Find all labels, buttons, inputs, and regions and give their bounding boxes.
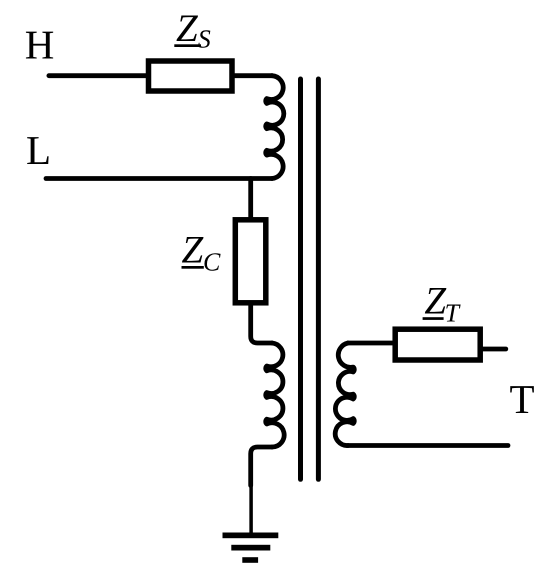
svg-text:S: S [198,25,211,54]
svg-text:H: H [25,22,55,68]
resistor ZC box [235,220,265,303]
underline of ZT label [423,317,444,320]
wire W3 top to ZT [348,341,396,346]
svg-text:Z: Z [182,229,205,272]
underline of ZS label [174,44,201,47]
underline of ZC label [182,266,204,269]
ground bar 1 [223,533,279,539]
svg-text:C: C [203,247,221,276]
winding W2 (common branch, lower left) [266,343,284,447]
wire W3 bottom to T terminal [348,443,508,448]
svg-text:T: T [510,376,535,422]
svg-text:T: T [445,299,461,328]
ground bar 3 [242,557,258,563]
core line left [298,79,303,479]
winding W3 (tertiary, right) [335,343,354,446]
wire L terminal to winding W1 bottom [46,176,272,181]
winding W1 (series branch, upper left) [266,76,284,179]
ground bar 2 [231,545,270,551]
resistor ZT box [395,329,480,360]
wire node to ZC [248,179,253,221]
wire ZT to right terminal [480,347,506,352]
svg-text:L: L [26,127,51,173]
wire H terminal to ZS [49,73,150,78]
wire W2 to ground stem [251,447,272,486]
wire ZS to winding W1 [233,73,272,78]
core line right [316,79,321,479]
wire ground stem thin [249,484,253,533]
wire ZC to winding W2 [251,303,272,343]
resistor ZS box [149,61,233,91]
svg-text:Z: Z [176,7,199,50]
